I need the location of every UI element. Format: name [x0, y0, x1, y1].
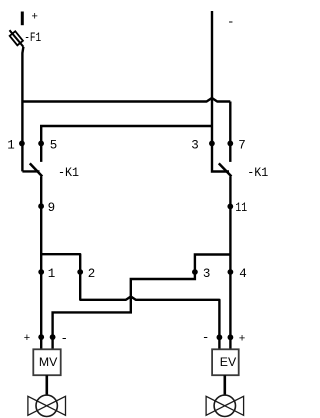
svg-text:4: 4	[239, 267, 247, 281]
node terminal 4	[228, 269, 234, 275]
node MV +	[38, 334, 44, 340]
svg-text:+: +	[31, 11, 38, 23]
svg-text:-F1: -F1	[24, 31, 41, 45]
node pin 5	[38, 141, 44, 147]
svg-text:3: 3	[203, 267, 211, 281]
wire: EV box to valve	[224, 375, 227, 395]
svg-text:-: -	[227, 15, 235, 29]
svg-text:+: +	[239, 334, 246, 346]
terminal - (negative supply)	[211, 11, 213, 144]
terminal + (positive supply)	[21, 12, 24, 26]
fuse -F1	[10, 30, 24, 47]
node terminal 2	[77, 269, 83, 275]
node EV +	[228, 334, 234, 340]
node pin 9	[38, 203, 44, 209]
electro valve EV box	[212, 349, 239, 375]
wire: common of left contact down to MV +	[40, 176, 42, 349]
svg-text:9: 9	[48, 201, 56, 215]
valve symbol MV	[28, 395, 66, 416]
wire: drop to pin 7	[229, 102, 231, 162]
node terminal 1	[38, 269, 44, 275]
motor valve MV box	[33, 349, 60, 375]
wire: MV box to valve	[45, 375, 48, 395]
svg-text:-K1: -K1	[58, 166, 79, 180]
valve symbol EV	[206, 395, 244, 416]
node MV -	[50, 334, 56, 340]
wire: branch from EV rail to terminal 3 and over to MV -	[53, 255, 231, 350]
svg-text:1: 1	[48, 267, 56, 281]
svg-text:MV: MV	[39, 355, 58, 369]
svg-text:-K1: -K1	[247, 166, 268, 180]
svg-text:1: 1	[7, 138, 15, 152]
svg-text:3: 3	[191, 138, 199, 152]
wire: common of right contact down to EV +	[229, 176, 231, 349]
svg-text:+: +	[24, 333, 31, 345]
node EV -	[217, 334, 223, 340]
svg-text:-: -	[61, 332, 69, 346]
node pin 11	[227, 204, 233, 210]
wire: + rail from fuse down to contact K1 pin 1	[22, 47, 23, 172]
node pin 3	[209, 141, 215, 147]
node terminal 3	[192, 269, 198, 275]
svg-text:-: -	[202, 331, 210, 345]
svg-text:2: 2	[88, 267, 96, 281]
svg-text:7: 7	[238, 138, 246, 152]
svg-text:EV: EV	[220, 355, 237, 369]
svg-text:11: 11	[235, 201, 247, 215]
wire: branch from MV rail to terminal 2 and over to EV - (hop at crossing)	[41, 254, 219, 349]
svg-text:5: 5	[50, 138, 58, 152]
node pin 7	[227, 141, 233, 147]
contact -K1 (left, pins 1-5-9)	[22, 163, 42, 176]
contact -K1 (right, pins 3-7-11)	[212, 144, 231, 177]
wire: + rail horizontal to pin 7 (hop over - rail)	[22, 98, 230, 102]
wire: - rail horizontal to pin 5	[41, 126, 212, 162]
node pin 1	[19, 141, 25, 147]
